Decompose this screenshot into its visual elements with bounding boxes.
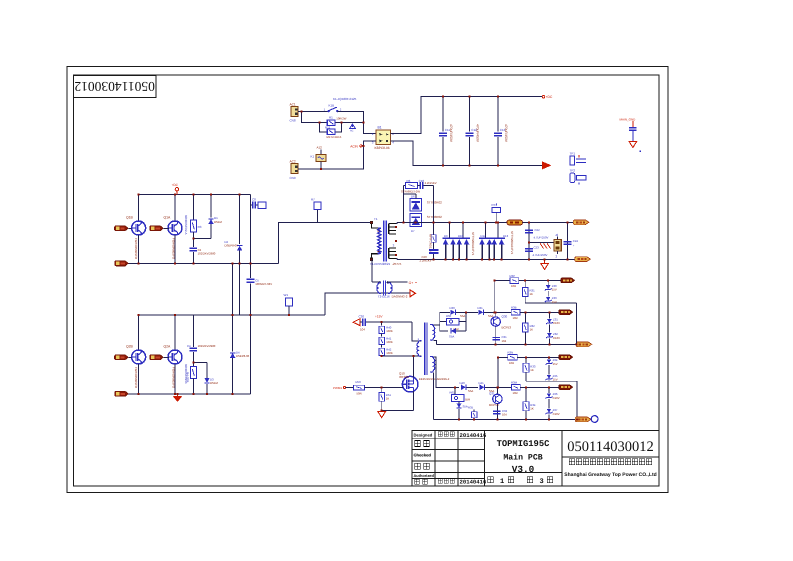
transistor Q2B (126, 315, 146, 394)
svg-text:D40: D40 (460, 381, 466, 385)
resistor R6 (401, 179, 420, 223)
rectifier dual diode D12 (479, 223, 493, 260)
svg-text:+DC: +DC (546, 95, 553, 99)
diode D41 (479, 381, 513, 393)
transformer T3 aux (417, 323, 450, 381)
svg-text:4.7UF/250V: 4.7UF/250V (533, 253, 548, 257)
svg-text:K1-JQX68F-0125: K1-JQX68F-0125 (333, 97, 357, 101)
zener Z34 (546, 357, 558, 381)
connector gate Q1B (115, 226, 129, 231)
svg-text:TOPMIG195C: TOPMIG195C (497, 439, 551, 449)
svg-text:10R: 10R (511, 284, 516, 288)
resistor R7 on rail (311, 198, 321, 223)
diode D32 (440, 312, 466, 338)
svg-text:C4: C4 (187, 344, 191, 348)
wire emitter rail lower (117, 393, 251, 395)
svg-text:102/2KV/2980: 102/2KV/2980 (198, 344, 216, 348)
connector CN9 (290, 160, 299, 180)
svg-text:STTH3R02: STTH3R02 (427, 200, 442, 204)
svg-text:STTH200L04TV1: STTH200L04TV1 (471, 232, 475, 256)
svg-text:Q2A: Q2A (164, 344, 172, 348)
svg-text:3: 3 (540, 478, 544, 486)
capacitor C18 (418, 179, 437, 189)
svg-text:15V: 15V (553, 378, 558, 382)
relay coil K1 (311, 146, 326, 169)
svg-text:104: 104 (502, 339, 507, 343)
svg-text:+DC: +DC (172, 183, 179, 187)
svg-text:C8: C8 (252, 197, 256, 201)
capacitor C8 rc snubber (251, 195, 266, 264)
sheet border inner (74, 75, 660, 486)
svg-text:R3P: R3P (510, 274, 516, 278)
svg-text:R6: R6 (407, 179, 411, 183)
svg-text:MF72-5D15: MF72-5D15 (327, 135, 342, 139)
top +15V row (495, 274, 561, 312)
svg-text:S5A: S5A (468, 389, 473, 393)
svg-text:470uF/450V: 470uF/450V (475, 124, 479, 143)
resistor R3M (511, 381, 559, 395)
svg-text:1K: 1K (530, 328, 534, 332)
connector CN_15VA (561, 278, 575, 283)
svg-text:1K: 1K (530, 406, 534, 410)
svg-text:DSEP8-06: DSEP8-06 (236, 354, 250, 358)
svg-text:2.2N/1KV: 2.2N/1KV (425, 181, 437, 185)
ground rail lower regulator (433, 419, 577, 421)
sheet border outer (67, 67, 668, 493)
diode D40 (460, 381, 479, 393)
svg-text:D13: D13 (503, 234, 509, 238)
junction nodes bridge (138, 194, 140, 196)
wire bridge pin2 to DC+ rail (391, 97, 543, 134)
svg-text:R3: R3 (198, 225, 202, 229)
relay contact K1B (324, 103, 342, 112)
svg-text:10R: 10R (513, 316, 518, 320)
resistor R34 (523, 387, 536, 419)
zener Z31 (546, 312, 560, 332)
wire output top (523, 222, 577, 224)
svg-text:150K: 150K (386, 329, 393, 333)
port PWM1 (333, 386, 353, 390)
power flag +DC at bridge (172, 183, 179, 195)
svg-text:050114030012: 050114030012 (74, 79, 155, 94)
resistor R17 output (507, 220, 523, 225)
capacitor C30 (359, 315, 413, 332)
svg-text:R3B: R3B (511, 306, 517, 310)
svg-text:150K: 150K (386, 351, 393, 355)
svg-text:D9: D9 (444, 234, 448, 238)
svg-text:D7: D7 (411, 229, 415, 233)
capacitor C2 snubber (190, 248, 216, 263)
svg-text:1: 1 (324, 107, 326, 111)
diode D4 (230, 315, 250, 394)
transformer T2 aux drive (372, 259, 417, 298)
svg-text:BCP53: BCP53 (502, 325, 512, 329)
wire lower mid to aux transformer (325, 293, 409, 315)
connector CN8 (290, 102, 299, 122)
svg-text:20140416: 20140416 (460, 432, 487, 439)
svg-text:Checked: Checked (414, 452, 432, 457)
svg-text:D10: D10 (458, 234, 464, 238)
svg-text:PWM1: PWM1 (333, 386, 342, 390)
wire lower +rail (139, 314, 325, 316)
transformer T1 main (370, 217, 402, 266)
resistor R3B (511, 306, 559, 320)
svg-text:K1: K1 (311, 154, 315, 158)
transistor Q2A (164, 315, 189, 394)
transistor Q30 (491, 312, 511, 344)
svg-text:Main PCB: Main PCB (503, 454, 542, 463)
svg-text:R61: R61 (450, 390, 456, 394)
resistor R3 snubber (190, 195, 201, 248)
svg-text:1K: 1K (530, 292, 534, 296)
title block (412, 431, 659, 487)
svg-text:10R/2W: 10R/2W (336, 116, 346, 120)
svg-text:10R: 10R (513, 391, 518, 395)
svg-text:Shanghai Greatway Top Power CO: Shanghai Greatway Top Power CO.,Ltd (564, 472, 656, 478)
svg-text:EE25/19/13-DAGNNG-2: EE25/19/13-DAGNNG-2 (419, 377, 450, 381)
svg-text:C30: C30 (359, 315, 365, 319)
svg-text:150K: 150K (386, 340, 393, 344)
svg-text:+: + (573, 243, 575, 247)
rectifier dual diode D13 (491, 223, 509, 260)
svg-text:K1B: K1B (329, 103, 335, 107)
resistor R32 (522, 312, 535, 344)
resistor R35 (468, 406, 477, 420)
svg-text:BCP53: BCP53 (489, 403, 499, 407)
warning triangle (350, 124, 356, 133)
svg-text:10R: 10R (509, 361, 514, 365)
svg-text:DSEP8-06: DSEP8-06 (225, 243, 239, 247)
port +15V arrow left (353, 319, 362, 326)
svg-text:AC: AC (350, 130, 354, 133)
svg-text:+15V: +15V (375, 315, 383, 319)
diode D6 (410, 194, 442, 211)
capacitor C11 (439, 97, 453, 166)
wire +DC rail of H-bridge upper (139, 194, 251, 196)
capacitor C5 on bus (247, 263, 273, 315)
svg-text:Q2B: Q2B (126, 344, 134, 348)
transistor Q1A (164, 195, 189, 264)
arrow DC- output (542, 161, 552, 169)
resistor R8 damper (429, 186, 436, 254)
diode D7 (404, 194, 443, 233)
connector gate Q1A (150, 226, 164, 231)
svg-text:100N/RT-63V: 100N/RT-63V (255, 282, 272, 286)
resistor R31 (522, 281, 576, 345)
svg-text:15V: 15V (552, 288, 557, 292)
ground MAIN_GND (620, 117, 641, 151)
svg-text:S5A: S5A (449, 334, 454, 338)
capacitor C22 (525, 223, 548, 260)
svg-text:RT2: RT2 (492, 203, 498, 207)
svg-text:W1: W1 (284, 293, 289, 297)
rectifier dual diode D9 (442, 223, 456, 260)
svg-text:B1: B1 (378, 125, 382, 129)
resistor R41 (379, 334, 393, 345)
svg-text:R3N: R3N (508, 351, 514, 355)
svg-text:TP2: TP2 (570, 169, 576, 173)
wire bridge pin4 to DC- rail (391, 141, 543, 166)
connector emitter upper (115, 261, 129, 266)
svg-text:Designed: Designed (414, 433, 433, 438)
junction nodes regulators (381, 321, 383, 323)
svg-text:MAIN_GND: MAIN_GND (620, 117, 637, 121)
connector CN_24V (559, 355, 573, 360)
optocoupler U30 (440, 314, 466, 331)
wire primary feed (382, 355, 422, 357)
svg-text:1K: 1K (386, 396, 390, 400)
svg-text:AC1: AC1 (290, 102, 296, 106)
ground output (541, 259, 549, 269)
resistor R4 snubber (186, 363, 197, 394)
svg-text:STTH200L04TV1: STTH200L04TV1 (510, 231, 514, 255)
test point TP2 (570, 169, 587, 185)
capacitor C20 (420, 250, 439, 262)
svg-text:3: 3 (393, 244, 395, 248)
diode D30 (440, 306, 478, 318)
wire emitter rail upper bridge (117, 262, 278, 264)
svg-text:FGH60N60SFD: FGH60N60SFD (172, 238, 176, 260)
lower regulator row A (498, 351, 559, 388)
zener Z30 (545, 281, 557, 304)
power flag +DC (542, 95, 553, 99)
connector CN_15VB (559, 310, 573, 315)
svg-text:55R: 55R (465, 397, 470, 401)
wire secondary top rail (397, 222, 507, 224)
bus right lower (250, 315, 252, 394)
svg-text:R4-20R: R4-20R (186, 372, 190, 383)
svg-text:15V: 15V (553, 362, 558, 366)
svg-text:C23: C23 (534, 245, 540, 249)
chassis ground (529, 243, 554, 249)
diode D31 (478, 306, 512, 318)
svg-text:S5A: S5A (460, 314, 465, 318)
svg-text:470uF/450V: 470uF/450V (449, 124, 453, 143)
connector CN13 (554, 233, 561, 258)
svg-text:C10V: C10V (553, 396, 560, 400)
svg-text:KBPC8-06: KBPC8-06 (375, 146, 390, 150)
svg-text:RS1M: RS1M (210, 381, 218, 385)
ground arrow primary (173, 394, 182, 402)
capacitor C12 (466, 97, 480, 166)
port ACIN (350, 141, 376, 148)
svg-text:2: 2 (340, 107, 342, 111)
svg-text:20140416: 20140416 (460, 479, 487, 486)
connector emitter lower (115, 391, 129, 396)
svg-text:15V: 15V (552, 300, 557, 304)
svg-text:-25:5:5: -25:5:5 (392, 262, 402, 266)
svg-text:R1: R1 (329, 116, 333, 120)
svg-text:TP1: TP1 (570, 152, 576, 156)
svg-text:DAGNNG-2: DAGNNG-2 (392, 295, 408, 299)
svg-text:2.2N/1KV: 2.2N/1KV (420, 258, 432, 262)
document number box (rotated 180) (74, 76, 157, 98)
svg-text:C18: C18 (419, 179, 425, 183)
ground aux (378, 410, 386, 417)
svg-text:R50: R50 (356, 380, 362, 384)
diode D2 (225, 195, 243, 264)
svg-text:50R: 50R (357, 392, 362, 396)
svg-text:T1-EE55/28/21: T1-EE55/28/21 (370, 262, 391, 266)
svg-text:R11: R11 (325, 125, 331, 129)
svg-text:S5A: S5A (488, 314, 493, 318)
test point TP1 (570, 152, 587, 165)
capacitor C23 (525, 245, 547, 257)
diode D1 (193, 195, 222, 239)
connector CN12 (575, 257, 591, 262)
svg-text:A12: A12 (317, 146, 323, 150)
svg-text:102/2KV/2980: 102/2KV/2980 (198, 252, 216, 256)
svg-text:Q1B: Q1B (126, 215, 134, 219)
wire R1 branch row (302, 112, 364, 123)
svg-text:AC2: AC2 (290, 160, 296, 164)
svg-text:T2-EE16: T2-EE16 (378, 295, 390, 299)
optocoupler U31 (450, 387, 471, 401)
svg-text:IRF830: IRF830 (399, 375, 409, 379)
svg-text:STTH3R02: STTH3R02 (427, 215, 442, 219)
zener Z32 (546, 332, 560, 344)
svg-text:FGH60N60SFD: FGH60N60SFD (134, 238, 138, 260)
capacitor C4 snubber (187, 315, 216, 362)
connector CN_GND2 (575, 416, 598, 423)
bridge rectifier B1 (372, 125, 394, 150)
svg-text:G+: G+ (409, 281, 414, 285)
zener Z36 (546, 387, 560, 419)
svg-text:Q1A: Q1A (164, 215, 172, 219)
capacitor C32 (493, 409, 507, 417)
secondary top to regulators (433, 325, 439, 345)
svg-text:D30: D30 (450, 306, 456, 310)
thermistor RT2 (492, 203, 501, 223)
svg-text:STR-8R2/J-2W: STR-8R2/J-2W (401, 190, 420, 194)
svg-text:Q31: Q31 (489, 391, 495, 395)
svg-text:CN9: CN9 (290, 176, 296, 180)
secondary bottom to row B (433, 357, 459, 388)
ground rail mid regulator (436, 343, 577, 345)
svg-text:2: 2 (556, 254, 558, 258)
transistor Q10 mosfet (399, 356, 418, 410)
svg-text:ACIN: ACIN (350, 144, 358, 148)
connector gate Q2A (150, 355, 164, 360)
svg-text:Authorized: Authorized (414, 473, 435, 478)
connector gate Q2B (115, 355, 129, 360)
diode D3 (193, 363, 218, 394)
svg-text:J2: J2 (555, 233, 559, 237)
svg-text:D31: D31 (478, 306, 484, 310)
capacitor C24 (563, 223, 578, 260)
svg-text:CN8: CN8 (290, 119, 296, 123)
wire contact to bridge (337, 112, 376, 134)
wire CN8 to relay contact (298, 111, 328, 113)
wire secondary bottom rail (397, 258, 576, 260)
svg-text:R3M: R3M (511, 381, 518, 385)
svg-text:1: 1 (500, 478, 504, 486)
svg-text:RS1M: RS1M (214, 220, 222, 224)
svg-text:R7: R7 (311, 198, 315, 202)
resistor R12 sense (284, 293, 293, 315)
rectifier dual diode D10 (456, 223, 470, 260)
transistor Q1B (126, 195, 146, 264)
svg-text:104: 104 (360, 328, 365, 332)
svg-text:1K: 1K (530, 368, 534, 372)
svg-text:C24: C24 (573, 239, 579, 243)
svg-text:D12: D12 (481, 234, 487, 238)
svg-text:Q30: Q30 (502, 315, 508, 319)
resistor R40 (379, 322, 393, 333)
svg-text:C10V: C10V (553, 412, 560, 416)
svg-text:D6: D6 (411, 194, 415, 198)
svg-text:470uF/450V: 470uF/450V (504, 124, 508, 143)
svg-text:60N60SFD2-A: 60N60SFD2-A (184, 215, 188, 235)
svg-text:FGH60N60SFD: FGH60N60SFD (134, 367, 138, 389)
svg-text:T1: T1 (374, 217, 378, 221)
svg-text:D41: D41 (479, 381, 485, 385)
resistor R1 (327, 116, 346, 126)
resistor RT11 (325, 125, 342, 138)
svg-text:C10V: C10V (553, 336, 560, 340)
wire bridge mid to transformer (278, 223, 371, 264)
resistor R42 (379, 345, 393, 357)
connector CN11 (567, 220, 589, 225)
svg-text:4.7UF/250V: 4.7UF/250V (534, 236, 549, 240)
junction nodes DC rails (442, 96, 444, 98)
connector CN_GND1 (576, 342, 592, 347)
bus wires to lower bridge (232, 263, 234, 315)
transistor Q31 (489, 387, 502, 419)
wire CN9 to bridge (298, 146, 364, 169)
svg-text:104: 104 (502, 412, 507, 416)
resistor R33 (523, 357, 577, 419)
capacitor C31 (493, 335, 507, 343)
capacitor C13 (494, 97, 508, 166)
svg-text:R35: R35 (468, 406, 474, 410)
svg-text:V3.0: V3.0 (512, 464, 535, 475)
svg-text:FGH60N60SFD: FGH60N60SFD (172, 367, 176, 389)
svg-text:C22: C22 (535, 228, 541, 232)
resistor R50 gate (353, 380, 403, 396)
svg-text:050114030012: 050114030012 (567, 439, 653, 455)
diode D42 (457, 401, 468, 419)
resistor R51 (379, 388, 392, 411)
svg-text:C10V: C10V (553, 321, 560, 325)
junction nodes secondary (403, 222, 405, 224)
wire source to ground (382, 409, 414, 411)
connector CN_15VC (559, 385, 573, 390)
